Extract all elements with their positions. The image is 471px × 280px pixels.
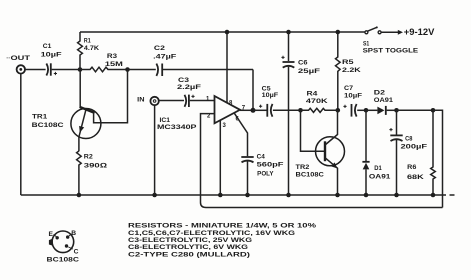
svg-text:BC108C: BC108C <box>32 122 64 129</box>
svg-text:68K: 68K <box>407 174 424 181</box>
svg-text:C7: C7 <box>344 85 353 92</box>
capacitor C4 <box>241 154 283 196</box>
node H junction (R6 tap) <box>431 108 436 113</box>
wire C3 to pin 1 <box>190 100 215 102</box>
svg-text:S1: S1 <box>363 41 370 48</box>
node D junction (TR2 base node) <box>298 108 303 113</box>
wire C2 to corner <box>163 69 253 71</box>
svg-text:C8-ELECTROLYTIC, 6V WKG: C8-ELECTROLYTIC, 6V WKG <box>128 244 248 251</box>
notes text <box>128 223 316 259</box>
wire pin 7 output to node C <box>240 109 253 111</box>
svg-text:470K: 470K <box>306 98 328 105</box>
resistor R1 <box>78 32 100 70</box>
svg-text:2.2µF: 2.2µF <box>177 84 201 91</box>
junction D1 on rail <box>364 193 369 198</box>
ground rail end dash <box>450 194 455 196</box>
node A junction <box>78 67 83 72</box>
svg-text:25µF: 25µF <box>298 68 320 75</box>
svg-text:10µF: 10µF <box>262 92 279 99</box>
svg-text:IC1: IC1 <box>160 117 171 124</box>
terminal OUT <box>7 55 32 74</box>
wire OUT to C1 <box>25 69 45 71</box>
svg-text:10µF: 10µF <box>344 93 362 100</box>
junction R6 on rail <box>431 193 436 198</box>
op-amp IC1 (MC3340P) <box>157 96 240 131</box>
svg-text:R5: R5 <box>342 59 354 66</box>
svg-text:RESISTORS - MINIATURE 1/4W, 5: RESISTORS - MINIATURE 1/4W, 5 OR 10% <box>128 223 316 230</box>
svg-text:BC108C: BC108C <box>47 257 80 264</box>
svg-text:560pF: 560pF <box>257 162 284 169</box>
svg-text:TR1: TR1 <box>32 114 48 121</box>
svg-text:C2-TYPE C280 (MULLARD): C2-TYPE C280 (MULLARD) <box>128 251 250 258</box>
resistor R4 <box>301 91 338 113</box>
svg-text:2.2K: 2.2K <box>342 67 361 74</box>
svg-text:C3-ELECTROLYTIC, 25V WKG: C3-ELECTROLYTIC, 25V WKG <box>128 237 252 244</box>
capacitor C6 <box>281 32 320 195</box>
wire node C to C5 <box>253 109 267 111</box>
junction IN ground on rail <box>152 193 157 198</box>
BC108C pinout diagram <box>47 230 80 263</box>
junction C4 on rail <box>245 193 250 198</box>
resistor R2 <box>77 151 107 195</box>
svg-text:D2: D2 <box>374 90 386 97</box>
junction R5 on top rail <box>336 30 341 35</box>
svg-text:C6: C6 <box>298 60 308 67</box>
wire S1 to supply arrow <box>381 31 398 33</box>
wire top rail <box>80 31 365 33</box>
junction R2 on rail <box>77 193 82 198</box>
svg-text:R3: R3 <box>107 53 118 60</box>
capacitor C8 <box>389 110 427 195</box>
svg-text:SPST TOGGLE: SPST TOGGLE <box>363 48 419 54</box>
ground rail <box>21 194 446 196</box>
wire pin 2 to lower return line <box>201 114 443 208</box>
node B junction (TR1 collector tap) <box>125 67 130 72</box>
resistor R3 <box>80 53 128 72</box>
svg-text:TR2: TR2 <box>296 164 310 171</box>
resistor R5 <box>336 32 361 110</box>
wire pin 6 to C4 <box>234 113 248 157</box>
svg-text:OA91: OA91 <box>369 174 391 181</box>
junction C6 on ground rail <box>286 193 291 198</box>
wire node B to C2 <box>128 69 156 71</box>
wire IN to ground rail <box>154 105 156 195</box>
svg-text:C2: C2 <box>154 45 165 52</box>
wire output corner to lower return line <box>433 110 443 207</box>
svg-text:B: B <box>71 230 76 237</box>
svg-text:C1: C1 <box>43 43 52 50</box>
svg-text:MC3340P: MC3340P <box>157 124 197 131</box>
svg-text:OA91: OA91 <box>374 97 393 104</box>
switch S1 <box>363 26 419 54</box>
svg-text:R4: R4 <box>307 91 318 98</box>
svg-text:10µF: 10µF <box>41 52 62 59</box>
svg-text:E: E <box>49 231 54 238</box>
svg-text:C8: C8 <box>405 136 413 143</box>
supply arrow +9-12V <box>398 27 435 37</box>
capacitor C7 <box>343 85 362 117</box>
wire node G to R6 <box>397 109 434 111</box>
svg-text:OUT: OUT <box>11 55 32 62</box>
junction pin3 on rail <box>218 193 223 198</box>
transistor TR1 <box>32 70 128 152</box>
diode D1 <box>362 110 390 195</box>
svg-text:R1: R1 <box>84 37 91 44</box>
wire OUT terminal to ground rail <box>20 74 22 195</box>
svg-text:200µF: 200µF <box>401 143 428 150</box>
transistor TR2 <box>296 110 345 195</box>
node E junction (R4/R5/C7/TR2 collector) <box>336 108 341 113</box>
svg-text:BC108C: BC108C <box>296 171 324 178</box>
svg-text:390Ω: 390Ω <box>84 163 107 170</box>
node F junction (D1 tap) <box>364 108 369 113</box>
svg-text:C1,C5,C6,C7-ELECTROLYTIC, 16V: C1,C5,C6,C7-ELECTROLYTIC, 16V WKG <box>128 230 295 237</box>
wire C7 to node F <box>357 109 366 111</box>
svg-text:.47µF: .47µF <box>153 54 176 61</box>
svg-text:R6: R6 <box>407 164 416 171</box>
capacitor C5 <box>259 85 278 116</box>
wire C1 to node A <box>52 69 80 71</box>
svg-text:R2: R2 <box>84 154 93 161</box>
junction C8 on rail <box>394 193 399 198</box>
node C junction (output) <box>251 108 256 113</box>
wire D2 to node G <box>387 109 397 111</box>
svg-text:C4: C4 <box>257 154 265 161</box>
node G junction (C8 tap) <box>394 108 399 113</box>
capacitor C2 <box>153 45 176 76</box>
diode D2 <box>374 90 393 115</box>
svg-text:IN: IN <box>137 97 144 104</box>
junction TR2 emitter on rail <box>335 193 340 198</box>
svg-text:D1: D1 <box>374 165 382 172</box>
junction C6 on top rail <box>286 30 291 35</box>
svg-text:4.7K: 4.7K <box>84 45 99 52</box>
wire pin 8 drop from top rail <box>226 32 228 103</box>
wire pin 3 to ground rail <box>219 120 221 195</box>
wire IN to C3 <box>159 100 184 102</box>
resistor R6 <box>407 110 435 195</box>
capacitor C1 <box>41 43 62 76</box>
wire node F to D2 <box>366 109 377 111</box>
wire C5 to node D <box>273 109 301 111</box>
svg-text:C: C <box>74 249 79 256</box>
svg-text:POLY: POLY <box>257 172 273 178</box>
svg-text:+9-12V: +9-12V <box>404 27 435 37</box>
capacitor C3 <box>177 77 201 107</box>
svg-text:15M: 15M <box>105 61 124 68</box>
terminal IN <box>137 97 159 106</box>
junction pin8 wire on top rail <box>225 30 230 35</box>
wire corner down to output node <box>252 70 254 111</box>
